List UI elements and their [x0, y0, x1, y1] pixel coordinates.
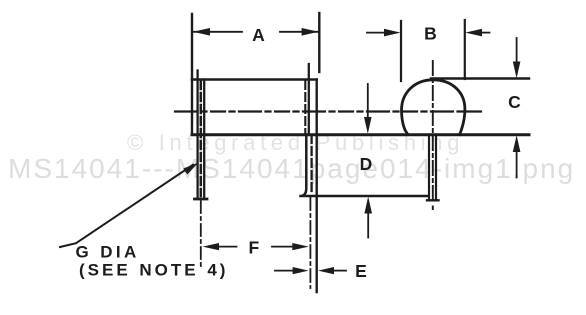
arrowhead B left — [384, 29, 401, 37]
dimension B line right — [482, 32, 490, 34]
leg bottom line D — [301, 135, 428, 197]
svg-text:A: A — [252, 25, 265, 45]
dimension F line left — [218, 246, 237, 248]
dimension A line right — [280, 31, 319, 33]
arrowhead D bottom — [364, 197, 372, 214]
A left extension and body left edge — [191, 14, 193, 135]
arrowhead B right — [465, 29, 482, 37]
tab left edge under dome — [428, 135, 430, 201]
dimension E line left — [275, 270, 293, 272]
svg-text:B: B — [424, 24, 437, 44]
arrowhead E left — [293, 267, 309, 274]
arrowhead E right — [318, 267, 334, 274]
B right extension line — [464, 20, 466, 79]
arrowhead A left — [193, 28, 210, 36]
dome vertical centerline — [432, 61, 434, 209]
centerline main axis — [175, 110, 482, 112]
left leg bottom tick — [195, 198, 208, 201]
A right extension line — [318, 13, 320, 72]
left leg centerline below — [200, 201, 202, 266]
arrowhead C top — [513, 62, 521, 79]
dimension C arrow line bottom — [516, 151, 518, 178]
svg-text:MS14041---MS14041page014-img1.: MS14041---MS14041page014-img1.png — [8, 153, 575, 184]
arrowhead F left — [203, 243, 219, 250]
C top extension line — [431, 77, 529, 79]
middle leg inner line poking above body — [308, 64, 310, 135]
arrowhead A right — [302, 28, 319, 36]
tab right edge under dome — [435, 135, 437, 201]
left leg hidden centerline — [200, 81, 203, 196]
dimension B line left — [367, 32, 384, 34]
G DIA leader line — [60, 165, 193, 247]
dome outline end view — [401, 80, 464, 135]
dimension F line right — [272, 246, 292, 248]
bottom mounting line — [192, 133, 529, 136]
tab bottom tick — [427, 199, 439, 201]
arrowhead G leader — [183, 163, 198, 175]
svg-text:(SEE NOTE 4): (SEE NOTE 4) — [79, 261, 228, 280]
arrowhead D top — [364, 117, 372, 134]
left leg left edge — [196, 71, 198, 199]
dimension C arrow line top — [516, 38, 518, 63]
middle leg centerline below leg — [309, 197, 311, 288]
B left extension line — [400, 21, 402, 81]
dimension D arrow line bottom — [367, 212, 369, 238]
svg-text:F: F — [248, 238, 259, 258]
middle leg dashed centerline below body — [310, 135, 312, 194]
middle leg hidden line inner — [304, 81, 306, 135]
dimension E line right — [333, 270, 346, 272]
left leg right edge — [203, 80, 205, 199]
body right edge and tab line — [316, 80, 318, 293]
dimension A line left — [193, 31, 242, 33]
arrowhead C bottom — [513, 135, 521, 152]
svg-text:E: E — [355, 261, 367, 281]
dimension D arrow line top — [367, 84, 369, 118]
svg-text:G DIA: G DIA — [76, 243, 140, 262]
arrowhead F right — [292, 243, 309, 250]
body top line — [192, 78, 317, 81]
svg-text:C: C — [508, 92, 521, 112]
svg-text:D: D — [360, 154, 373, 174]
